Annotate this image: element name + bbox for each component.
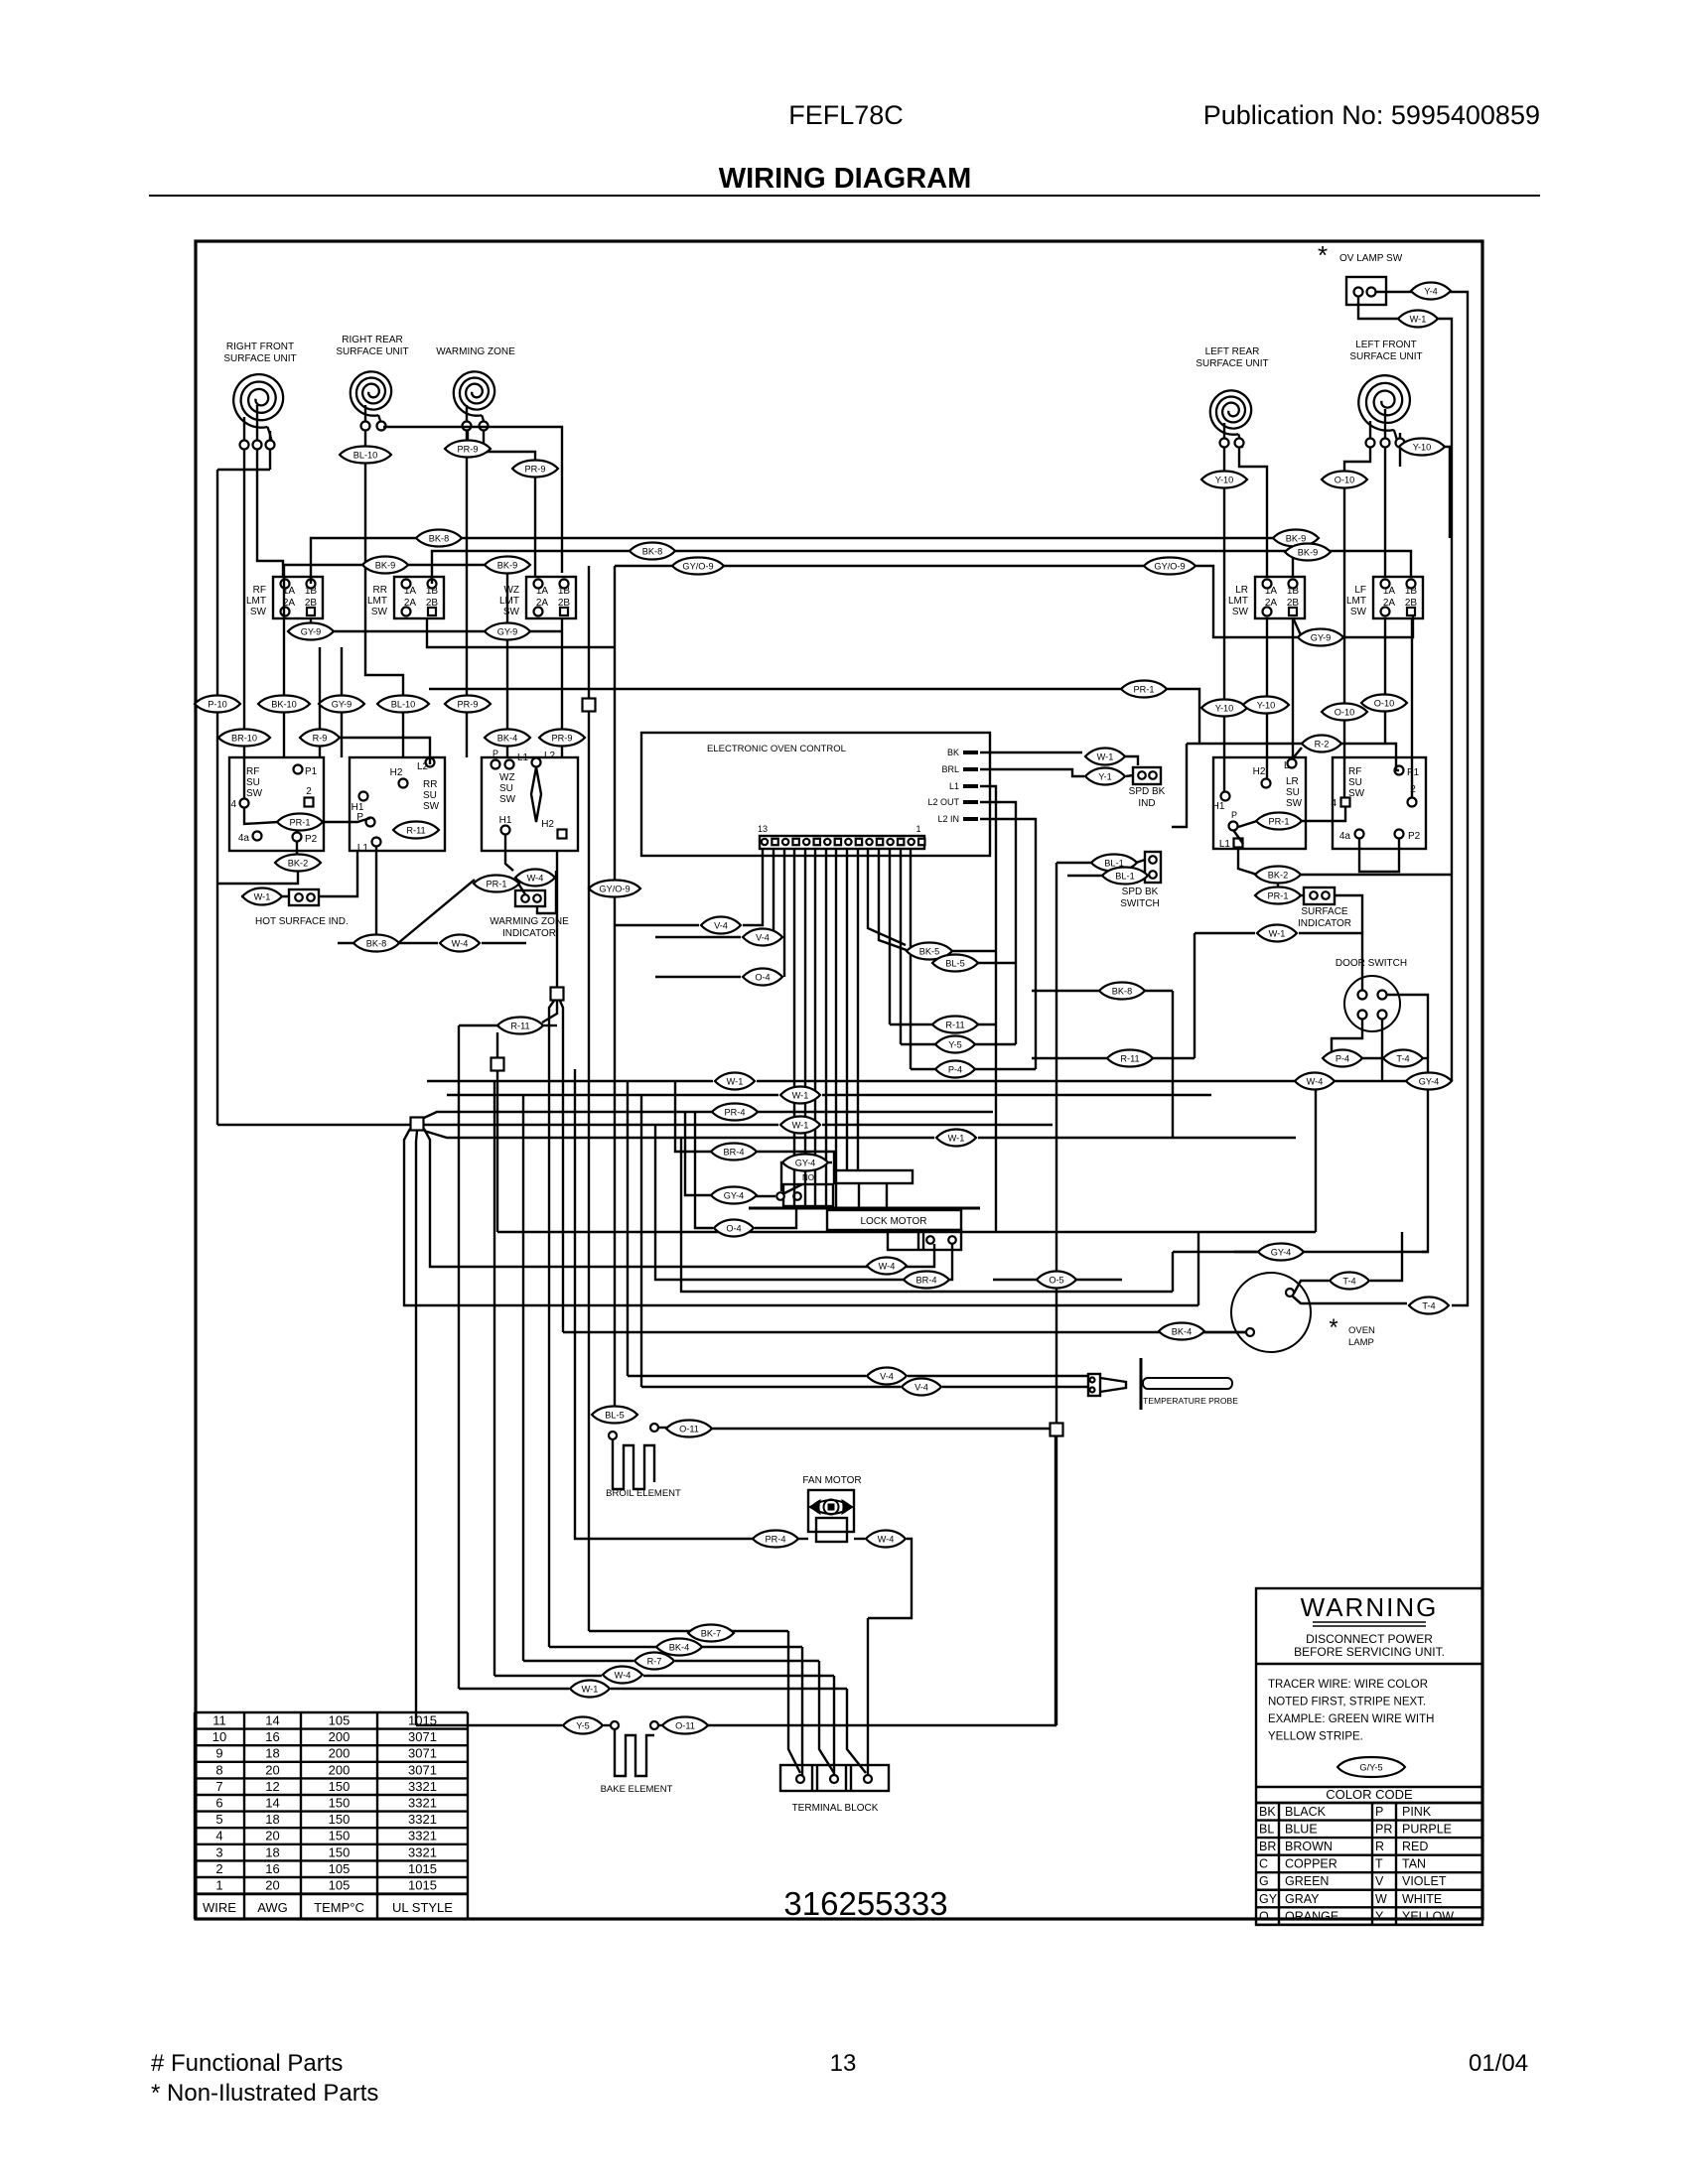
svg-text:FAN MOTOR: FAN MOTOR (802, 1475, 861, 1486)
svg-text:GY-9: GY-9 (332, 699, 352, 709)
svg-text:BL-5: BL-5 (605, 1410, 624, 1420)
svg-text:Y-5: Y-5 (948, 1039, 961, 1049)
svg-text:3321: 3321 (408, 1844, 437, 1859)
svg-text:FEFL78C: FEFL78C (788, 100, 904, 130)
svg-text:R-11: R-11 (406, 825, 425, 835)
svg-text:WZ: WZ (499, 772, 515, 783)
svg-text:P2: P2 (1408, 831, 1421, 842)
svg-text:O-10: O-10 (1335, 707, 1354, 717)
svg-text:14: 14 (265, 1796, 279, 1811)
svg-text:316255333: 316255333 (783, 1885, 947, 1922)
svg-text:SPD BK: SPD BK (1122, 887, 1159, 897)
svg-text:GY/O-9: GY/O-9 (1154, 561, 1185, 571)
svg-text:SW: SW (1286, 798, 1303, 809)
svg-text:BRL: BRL (941, 764, 959, 774)
svg-text:2: 2 (215, 1861, 222, 1876)
svg-text:3321: 3321 (408, 1796, 437, 1811)
svg-text:INDICATOR: INDICATOR (1298, 918, 1351, 929)
svg-text:LMT: LMT (367, 596, 387, 607)
svg-text:3: 3 (215, 1844, 222, 1859)
svg-text:H2: H2 (1253, 766, 1266, 777)
svg-text:2: 2 (306, 786, 312, 797)
svg-text:SURFACE UNIT: SURFACE UNIT (336, 346, 408, 357)
svg-text:8: 8 (215, 1762, 222, 1777)
svg-text:BL-1: BL-1 (1115, 871, 1134, 881)
svg-text:20: 20 (265, 1878, 279, 1893)
svg-text:4a: 4a (238, 833, 250, 844)
svg-text:BL-10: BL-10 (391, 699, 416, 709)
svg-text:RF: RF (253, 585, 266, 596)
svg-text:Y-1: Y-1 (1098, 771, 1111, 781)
svg-text:*: * (1329, 1314, 1337, 1341)
svg-text:9: 9 (215, 1746, 222, 1761)
svg-text:01/04: 01/04 (1469, 2050, 1528, 2077)
svg-text:BR-4: BR-4 (724, 1147, 745, 1157)
svg-text:GY/O-9: GY/O-9 (682, 561, 713, 571)
svg-text:W-4: W-4 (615, 1670, 632, 1680)
svg-text:RR: RR (423, 779, 437, 790)
svg-text:ELECTRONIC OVEN CONTROL: ELECTRONIC OVEN CONTROL (707, 744, 846, 754)
svg-text:TEMP°C: TEMP°C (314, 1900, 364, 1915)
svg-text:SW: SW (1350, 607, 1367, 617)
svg-text:BK-9: BK-9 (1286, 533, 1306, 543)
svg-text:SU: SU (499, 783, 513, 794)
svg-text:PR-9: PR-9 (552, 733, 573, 743)
svg-text:LEFT FRONT: LEFT FRONT (1355, 340, 1416, 350)
svg-text:AWG: AWG (257, 1900, 288, 1915)
svg-text:LMT: LMT (1228, 596, 1248, 607)
svg-text:4: 4 (215, 1829, 222, 1843)
svg-text:SU: SU (1286, 787, 1300, 798)
svg-text:Y-10: Y-10 (1215, 703, 1234, 713)
svg-text:W: W (1375, 1892, 1387, 1906)
svg-text:R-9: R-9 (313, 733, 328, 743)
svg-text:O-11: O-11 (675, 1720, 695, 1730)
svg-text:YELLOW: YELLOW (1402, 1909, 1454, 1923)
svg-text:4: 4 (1331, 798, 1336, 809)
svg-text:UL STYLE: UL STYLE (392, 1900, 453, 1915)
svg-text:R-7: R-7 (647, 1656, 662, 1666)
svg-text:L1: L1 (357, 843, 369, 854)
svg-text:IND: IND (1138, 798, 1155, 809)
svg-text:SU: SU (423, 790, 437, 801)
svg-text:YELLOW STRIPE.: YELLOW STRIPE. (1268, 1731, 1363, 1743)
svg-text:3071: 3071 (408, 1729, 437, 1744)
svg-text:COLOR CODE: COLOR CODE (1326, 1787, 1413, 1802)
svg-text:DISCONNECT POWER: DISCONNECT POWER (1306, 1632, 1433, 1646)
svg-text:BR-10: BR-10 (231, 733, 257, 743)
svg-text:WIRING DIAGRAM: WIRING DIAGRAM (719, 163, 972, 195)
svg-text:TERMINAL BLOCK: TERMINAL BLOCK (792, 1803, 879, 1814)
svg-text:PR-9: PR-9 (458, 444, 479, 454)
svg-text:WHITE: WHITE (1402, 1892, 1442, 1906)
svg-text:TEMPERATURE PROBE: TEMPERATURE PROBE (1143, 1396, 1238, 1406)
svg-text:W-4: W-4 (452, 938, 469, 948)
svg-text:GY/O-9: GY/O-9 (599, 884, 630, 893)
svg-text:16: 16 (265, 1861, 279, 1876)
svg-text:4: 4 (230, 799, 236, 810)
svg-text:COPPER: COPPER (1285, 1857, 1337, 1871)
svg-text:BK-2: BK-2 (288, 858, 308, 868)
svg-text:O-5: O-5 (1049, 1275, 1063, 1285)
svg-text:105: 105 (329, 1713, 351, 1728)
svg-text:SW: SW (503, 607, 520, 617)
svg-text:18: 18 (265, 1812, 279, 1827)
svg-text:BK-4: BK-4 (1172, 1326, 1192, 1336)
svg-text:PR-1: PR-1 (1268, 890, 1289, 900)
svg-text:18: 18 (265, 1746, 279, 1761)
svg-text:SW: SW (250, 607, 267, 617)
svg-text:11: 11 (212, 1713, 226, 1728)
svg-text:PR-1: PR-1 (1134, 684, 1155, 694)
svg-text:P1: P1 (305, 766, 318, 777)
svg-text:R-11: R-11 (510, 1021, 529, 1030)
svg-text:7: 7 (215, 1779, 222, 1794)
svg-text:SW: SW (1232, 607, 1249, 617)
svg-text:BK-2: BK-2 (1268, 870, 1288, 880)
svg-text:P-4: P-4 (948, 1064, 962, 1074)
svg-text:W-1: W-1 (792, 1120, 809, 1130)
svg-text:Y-10: Y-10 (1215, 475, 1234, 484)
svg-text:BLACK: BLACK (1285, 1805, 1327, 1819)
svg-text:Y-10: Y-10 (1413, 442, 1432, 452)
svg-text:LMT: LMT (246, 596, 266, 607)
svg-text:*: * (1318, 240, 1328, 270)
svg-text:V-4: V-4 (914, 1382, 928, 1392)
svg-text:BL: BL (1259, 1823, 1274, 1837)
svg-text:BL-10: BL-10 (353, 450, 378, 460)
svg-text:GY-9: GY-9 (301, 626, 322, 636)
svg-text:R-11: R-11 (945, 1020, 964, 1029)
svg-text:GY-4: GY-4 (1419, 1076, 1440, 1086)
svg-text:150: 150 (329, 1829, 351, 1843)
svg-text:W-4: W-4 (878, 1534, 895, 1544)
svg-text:1015: 1015 (408, 1861, 437, 1876)
svg-text:BK-8: BK-8 (642, 546, 662, 556)
svg-text:3321: 3321 (408, 1829, 437, 1843)
svg-text:16: 16 (265, 1729, 279, 1744)
svg-text:BR-4: BR-4 (916, 1275, 937, 1285)
svg-text:3071: 3071 (408, 1762, 437, 1777)
svg-text:LOCK MOTOR: LOCK MOTOR (860, 1216, 926, 1227)
svg-text:W-4: W-4 (1307, 1076, 1324, 1086)
svg-text:BK: BK (947, 748, 959, 757)
svg-text:PR-4: PR-4 (766, 1534, 786, 1544)
svg-text:SU: SU (246, 777, 260, 788)
svg-text:# Functional Parts: # Functional Parts (151, 2050, 343, 2077)
svg-text:W-1: W-1 (1410, 314, 1427, 324)
svg-text:WARMING ZONE: WARMING ZONE (436, 346, 515, 357)
svg-text:BLUE: BLUE (1285, 1823, 1318, 1837)
svg-text:W-4: W-4 (527, 873, 544, 883)
svg-text:BK-4: BK-4 (669, 1642, 689, 1652)
svg-text:P-10: P-10 (208, 699, 226, 709)
svg-text:3321: 3321 (408, 1812, 437, 1827)
svg-text:BR: BR (1259, 1840, 1276, 1853)
svg-text:RED: RED (1402, 1840, 1428, 1853)
svg-text:Y-10: Y-10 (1257, 700, 1276, 710)
svg-text:L2: L2 (544, 751, 556, 761)
svg-text:GY-4: GY-4 (1271, 1247, 1292, 1257)
svg-text:NOTED FIRST, STRIPE NEXT.: NOTED FIRST, STRIPE NEXT. (1268, 1697, 1426, 1708)
svg-text:200: 200 (329, 1729, 351, 1744)
svg-text:SW: SW (246, 788, 263, 799)
svg-text:BAKE ELEMENT: BAKE ELEMENT (601, 1784, 673, 1795)
svg-text:W-1: W-1 (792, 1090, 809, 1100)
svg-text:SW: SW (423, 801, 440, 812)
svg-text:105: 105 (329, 1878, 351, 1893)
svg-text:150: 150 (329, 1796, 351, 1811)
svg-text:W-1: W-1 (1097, 751, 1114, 761)
svg-text:O-4: O-4 (755, 972, 770, 982)
svg-text:PR-4: PR-4 (725, 1107, 746, 1117)
svg-text:H1: H1 (1212, 801, 1225, 812)
svg-text:GY-9: GY-9 (1311, 632, 1332, 642)
svg-text:Publication No: 5995400859: Publication No: 5995400859 (1203, 100, 1540, 130)
svg-text:BK-5: BK-5 (919, 946, 939, 956)
svg-text:W-1: W-1 (1269, 928, 1286, 938)
svg-text:SURFACE UNIT: SURFACE UNIT (1349, 351, 1422, 362)
svg-text:L2 IN: L2 IN (937, 814, 959, 824)
svg-text:V-4: V-4 (756, 932, 770, 942)
svg-text:BL-5: BL-5 (945, 958, 964, 968)
svg-text:PINK: PINK (1402, 1805, 1432, 1819)
svg-text:GY-4: GY-4 (724, 1190, 745, 1200)
svg-text:SU: SU (1348, 777, 1362, 788)
svg-text:L1: L1 (517, 752, 529, 763)
svg-text:GRAY: GRAY (1285, 1892, 1320, 1906)
svg-text:3071: 3071 (408, 1746, 437, 1761)
svg-text:L2 OUT: L2 OUT (927, 797, 959, 807)
svg-text:P: P (1375, 1805, 1383, 1819)
svg-text:L1: L1 (949, 781, 959, 791)
svg-text:SWITCH: SWITCH (1120, 898, 1159, 909)
svg-text:LR: LR (1235, 585, 1248, 596)
svg-text:W-1: W-1 (582, 1684, 599, 1694)
svg-text:LF: LF (1354, 585, 1366, 596)
svg-text:1: 1 (915, 824, 920, 834)
svg-text:SW: SW (499, 794, 516, 805)
svg-text:EXAMPLE: GREEN WIRE WITH: EXAMPLE: GREEN WIRE WITH (1268, 1713, 1434, 1725)
svg-text:GREEN: GREEN (1285, 1874, 1329, 1888)
svg-text:5: 5 (215, 1812, 222, 1827)
svg-text:BROIL ELEMENT: BROIL ELEMENT (606, 1488, 681, 1499)
svg-text:WARNING: WARNING (1301, 1592, 1439, 1622)
svg-text:SURFACE: SURFACE (1301, 906, 1348, 917)
svg-text:T: T (1375, 1857, 1383, 1871)
svg-text:150: 150 (329, 1779, 351, 1794)
svg-text:150: 150 (329, 1812, 351, 1827)
svg-text:3321: 3321 (408, 1779, 437, 1794)
svg-text:12: 12 (265, 1779, 279, 1794)
svg-text:14: 14 (265, 1713, 279, 1728)
svg-text:P: P (1231, 810, 1237, 820)
svg-text:1: 1 (215, 1878, 222, 1893)
svg-text:VIOLET: VIOLET (1402, 1874, 1447, 1888)
svg-text:BK-4: BK-4 (497, 733, 517, 743)
svg-text:P: P (492, 749, 498, 758)
svg-text:BK-8: BK-8 (429, 533, 449, 543)
svg-text:H2: H2 (541, 819, 554, 830)
svg-text:BK-9: BK-9 (375, 560, 395, 570)
svg-text:RIGHT FRONT: RIGHT FRONT (226, 341, 294, 352)
svg-text:200: 200 (329, 1762, 351, 1777)
svg-text:O-4: O-4 (726, 1223, 741, 1233)
svg-text:SURFACE UNIT: SURFACE UNIT (223, 353, 296, 364)
svg-text:O-11: O-11 (679, 1424, 699, 1433)
svg-text:BROWN: BROWN (1285, 1840, 1333, 1853)
svg-text:BK-9: BK-9 (497, 560, 517, 570)
svg-text:Y-4: Y-4 (1424, 286, 1437, 296)
svg-text:G/Y-5: G/Y-5 (1359, 1762, 1382, 1772)
svg-text:O-10: O-10 (1374, 698, 1394, 708)
svg-text:Y-5: Y-5 (576, 1720, 589, 1730)
svg-text:BK-10: BK-10 (271, 699, 297, 709)
svg-text:BEFORE SERVICING UNIT.: BEFORE SERVICING UNIT. (1294, 1645, 1445, 1659)
svg-text:TRACER WIRE: WIRE COLOR: TRACER WIRE: WIRE COLOR (1268, 1679, 1428, 1691)
svg-text:6: 6 (215, 1796, 222, 1811)
svg-text:LAMP: LAMP (1348, 1337, 1374, 1348)
svg-text:V: V (1375, 1874, 1384, 1888)
svg-text:L1: L1 (1219, 839, 1231, 850)
svg-text:DOOR SWITCH: DOOR SWITCH (1336, 958, 1407, 969)
svg-text:ORANGE: ORANGE (1285, 1909, 1338, 1923)
svg-text:BK: BK (1259, 1805, 1276, 1819)
svg-text:R-2: R-2 (1315, 739, 1330, 749)
svg-text:INDICATOR: INDICATOR (502, 928, 556, 939)
svg-text:T-4: T-4 (1396, 1053, 1409, 1063)
svg-text:4a: 4a (1339, 831, 1351, 842)
svg-text:PR-9: PR-9 (525, 464, 546, 474)
svg-text:RIGHT REAR: RIGHT REAR (342, 335, 403, 345)
svg-text:PR: PR (1375, 1823, 1392, 1837)
svg-text:PR-9: PR-9 (458, 699, 479, 709)
svg-text:20: 20 (265, 1829, 279, 1843)
svg-text:WZ: WZ (503, 585, 519, 596)
svg-text:HOT SURFACE IND.: HOT SURFACE IND. (255, 916, 349, 927)
svg-text:P2: P2 (305, 834, 318, 845)
svg-text:1015: 1015 (408, 1878, 437, 1893)
svg-text:W-1: W-1 (254, 891, 271, 901)
svg-text:C: C (1259, 1857, 1268, 1871)
svg-text:10: 10 (212, 1729, 226, 1744)
svg-text:V-4: V-4 (714, 920, 728, 930)
svg-text:T-4: T-4 (1422, 1300, 1435, 1310)
svg-text:13: 13 (830, 2050, 857, 2077)
svg-text:P1: P1 (1407, 767, 1420, 778)
svg-text:H2: H2 (390, 767, 403, 778)
svg-text:200: 200 (329, 1746, 351, 1761)
svg-text:PR-1: PR-1 (290, 817, 311, 827)
svg-text:LMT: LMT (499, 596, 519, 607)
svg-text:G: G (1259, 1874, 1269, 1888)
svg-text:SW: SW (371, 607, 388, 617)
svg-text:V-4: V-4 (880, 1371, 894, 1381)
svg-text:LMT: LMT (1346, 596, 1366, 607)
svg-text:Y: Y (1375, 1909, 1384, 1923)
svg-text:* Non-Ilustrated Parts: * Non-Ilustrated Parts (151, 2080, 378, 2107)
svg-text:W-1: W-1 (948, 1133, 965, 1143)
svg-text:SPD BK: SPD BK (1129, 786, 1166, 797)
svg-text:R: R (1375, 1840, 1384, 1853)
svg-text:PR-1: PR-1 (1269, 816, 1290, 826)
svg-text:P-4: P-4 (1336, 1053, 1349, 1063)
svg-text:L2: L2 (417, 761, 429, 772)
svg-text:T-4: T-4 (1342, 1276, 1355, 1286)
svg-text:RR: RR (373, 585, 387, 596)
svg-text:18: 18 (265, 1844, 279, 1859)
svg-text:RF: RF (246, 766, 259, 777)
svg-text:BK-7: BK-7 (701, 1628, 721, 1638)
svg-text:20: 20 (265, 1762, 279, 1777)
svg-text:GY-4: GY-4 (795, 1158, 816, 1167)
svg-text:PR-1: PR-1 (487, 879, 507, 888)
svg-text:SURFACE UNIT: SURFACE UNIT (1196, 358, 1268, 369)
svg-text:PURPLE: PURPLE (1402, 1823, 1452, 1837)
svg-text:BK-8: BK-8 (366, 938, 386, 948)
svg-text:OV LAMP SW: OV LAMP SW (1339, 253, 1403, 264)
svg-text:LEFT REAR: LEFT REAR (1205, 346, 1260, 357)
svg-text:H1: H1 (499, 815, 512, 826)
svg-text:W-4: W-4 (879, 1261, 896, 1271)
svg-text:TAN: TAN (1402, 1857, 1426, 1871)
svg-text:O-10: O-10 (1335, 475, 1354, 484)
svg-text:GY-9: GY-9 (497, 626, 518, 636)
svg-text:BK-8: BK-8 (1112, 986, 1132, 996)
svg-text:R-11: R-11 (1120, 1053, 1139, 1063)
svg-text:RF: RF (1348, 766, 1361, 777)
svg-text:105: 105 (329, 1861, 351, 1876)
svg-text:150: 150 (329, 1844, 351, 1859)
svg-text:LR: LR (1286, 776, 1299, 787)
svg-text:BK-9: BK-9 (1298, 547, 1318, 557)
svg-text:OVEN: OVEN (1348, 1325, 1375, 1336)
svg-text:WIRE: WIRE (203, 1900, 236, 1915)
svg-text:13: 13 (758, 824, 768, 834)
svg-text:W-1: W-1 (727, 1076, 744, 1086)
svg-text:O: O (1259, 1909, 1269, 1923)
svg-text:GY: GY (1259, 1892, 1278, 1906)
